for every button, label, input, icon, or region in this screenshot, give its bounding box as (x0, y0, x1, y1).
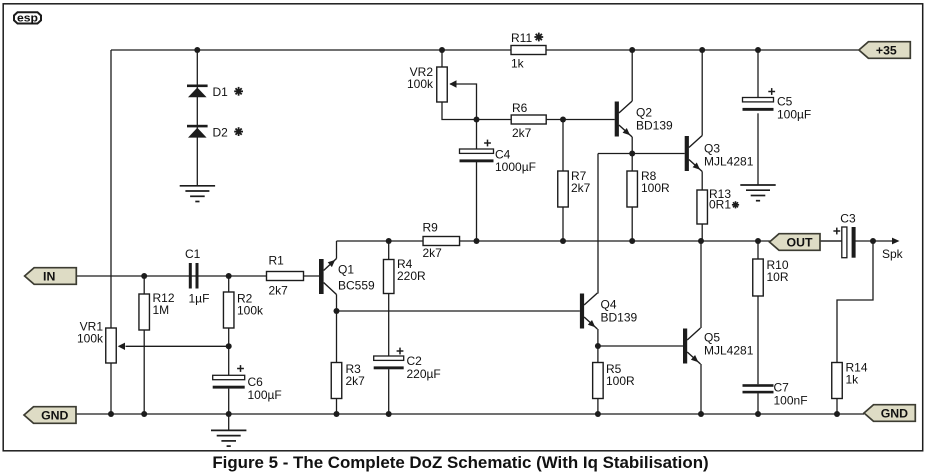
svg-text:Q4: Q4 (601, 298, 617, 312)
svg-text:C5: C5 (777, 95, 793, 109)
wire Q2 collector riser (631, 50, 633, 101)
wire Q1 collector riser (336, 295, 338, 312)
tag +35 (859, 42, 910, 59)
wire VR2 top lead (441, 50, 443, 67)
resistor R1 (267, 254, 304, 298)
wire +35 top rail left of R11 (111, 49, 511, 51)
ground under D1 D2 (180, 186, 215, 202)
wire Q2 emitter riser (631, 137, 633, 154)
wire VR2 wiper to node (450, 84, 477, 120)
wire Q3 emitter to R13 (701, 172, 703, 191)
svg-text:2k7: 2k7 (512, 126, 532, 140)
svg-text:Q5: Q5 (704, 331, 720, 345)
svg-text:100R: 100R (606, 374, 635, 388)
svg-text:C2: C2 (407, 354, 423, 368)
wire R14 bottom lead (836, 399, 838, 415)
wire C6 bottom lead (228, 389, 230, 414)
resistor R4 (383, 257, 426, 294)
svg-text:2k7: 2k7 (346, 374, 366, 388)
svg-text:R1: R1 (269, 254, 285, 268)
resistor R10 (753, 258, 789, 296)
ground under C5 (740, 185, 775, 201)
transistor Q2 (615, 101, 673, 137)
wire R8 branch (631, 154, 633, 242)
resistor R7 (558, 169, 591, 207)
wire R4 C2 branch upper (388, 241, 390, 356)
svg-text:D1: D1 (213, 85, 229, 99)
svg-text:10R: 10R (767, 270, 789, 284)
wire C7 bottom lead (757, 393, 759, 414)
svg-text:100µF: 100µF (248, 388, 282, 402)
wire C6 ground stub (228, 414, 230, 430)
asterisk for R11 (534, 33, 543, 42)
wire OUT tag to C3 (820, 240, 842, 242)
svg-text:C1: C1 (185, 247, 201, 261)
svg-text:R11: R11 (511, 31, 532, 45)
wire left bias rail lower (110, 363, 112, 414)
diode D2 (187, 125, 228, 140)
wire ground rail (76, 413, 864, 415)
svg-text:100k: 100k (237, 304, 264, 318)
capacitor C7 (743, 381, 808, 408)
svg-text:Q2: Q2 (636, 106, 652, 120)
svg-text:OUT: OUT (787, 235, 813, 249)
svg-text:2k7: 2k7 (423, 246, 443, 260)
wire R12 branch (143, 276, 145, 414)
wire Q4 collector riser (597, 154, 599, 294)
wire VR1 wiper line (126, 345, 229, 347)
svg-text:IN: IN (43, 269, 55, 283)
wire node to R6 (477, 119, 512, 121)
capacitor C5 (743, 88, 812, 121)
wire R6 to Q2 base (546, 119, 615, 121)
asterisk for R13 (732, 201, 739, 208)
tag GND left (24, 407, 76, 424)
svg-text:2k7: 2k7 (269, 284, 289, 298)
svg-text:Q1: Q1 (338, 263, 354, 277)
resistor R11 (511, 31, 546, 71)
svg-text:220µF: 220µF (407, 367, 441, 381)
resistor R13 (697, 187, 731, 224)
wire C5 bottom lead (757, 113, 759, 185)
resistor R2 (223, 292, 264, 329)
ESP logo (14, 12, 41, 24)
transistor Q1 (319, 259, 375, 295)
svg-text:Figure 5 - The Complete DoZ Sc: Figure 5 - The Complete DoZ Schematic (W… (212, 453, 708, 472)
asterisk for D2 (234, 127, 243, 136)
transistor Q4 (580, 293, 638, 329)
svg-text:1k: 1k (511, 57, 525, 71)
svg-text:R6: R6 (512, 101, 528, 115)
resistor R6 (511, 101, 546, 140)
svg-text:+35: +35 (876, 43, 897, 57)
transistor Q3 (685, 136, 754, 172)
svg-text:C7: C7 (774, 381, 790, 395)
wire C3 to speaker node (856, 240, 874, 242)
svg-text:C6: C6 (248, 375, 264, 389)
svg-text:D2: D2 (213, 125, 229, 139)
potentiometer VR1 (77, 320, 125, 364)
resistor R3 (331, 362, 365, 399)
wire left bias rail upper (110, 50, 112, 328)
wire R7 branch (562, 120, 564, 242)
potentiometer VR2 (407, 65, 457, 102)
svg-text:100µF: 100µF (777, 108, 811, 122)
svg-text:esp: esp (17, 12, 38, 24)
wire Q1 emitter riser (336, 241, 338, 259)
ground under C6 (211, 430, 246, 446)
wire R3 branch (336, 311, 338, 414)
capacitor C2 (374, 348, 441, 381)
svg-text:BD139: BD139 (636, 119, 673, 133)
figure caption (212, 453, 708, 472)
wire Q1 collector to Q4 base (337, 310, 580, 312)
svg-text:C3: C3 (840, 212, 856, 226)
tag GND right (864, 405, 915, 422)
svg-text:1µF: 1µF (189, 292, 210, 306)
capacitor C4 (460, 140, 536, 174)
diode D1 (187, 85, 228, 100)
svg-text:MJL4281: MJL4281 (704, 344, 754, 358)
wire R13 bottom lead (701, 224, 703, 241)
wire C5 top lead (757, 50, 759, 98)
svg-text:100k: 100k (77, 332, 104, 346)
svg-text:0R1: 0R1 (709, 198, 731, 212)
wire C2 bottom lead (388, 369, 390, 414)
resistor R12 (139, 291, 175, 330)
wire +35 top rail right of R11 (546, 49, 859, 51)
tag IN (25, 268, 77, 285)
wire Q3 collector riser (701, 50, 703, 136)
svg-text:Q3: Q3 (704, 142, 720, 156)
wire Q5 emitter riser (700, 364, 702, 414)
asterisk for D1 (234, 87, 243, 96)
wire C4 top lead (476, 120, 478, 150)
capacitor C3 (833, 212, 856, 258)
svg-text:GND: GND (41, 408, 68, 422)
svg-text:1000µF: 1000µF (495, 160, 536, 174)
svg-text:BD139: BD139 (601, 311, 638, 325)
wire Q5 collector riser (700, 241, 702, 328)
svg-text:220R: 220R (397, 269, 426, 283)
resistor R9 (423, 221, 460, 261)
svg-text:100R: 100R (641, 181, 670, 195)
svg-text:Spk: Spk (882, 247, 904, 261)
svg-text:1k: 1k (846, 373, 860, 387)
transistor Q5 (683, 328, 754, 364)
wire R2 C6 branch upper (228, 276, 230, 375)
svg-text:100nF: 100nF (774, 394, 808, 408)
capacitor C6 (213, 365, 282, 402)
resistor R5 (593, 362, 635, 399)
wire R14 loop from output (837, 241, 873, 363)
resistor R8 (627, 169, 670, 207)
speaker arrow Spk (873, 238, 904, 261)
svg-text:100k: 100k (407, 77, 434, 91)
svg-text:BC559: BC559 (338, 279, 375, 293)
wire Q4 emitter riser (597, 329, 599, 346)
svg-text:R9: R9 (423, 221, 439, 235)
resistor R14 (832, 361, 868, 399)
svg-text:1M: 1M (153, 303, 170, 317)
wire R10 C7 branch upper (757, 241, 759, 384)
wire output rail (337, 240, 842, 242)
tag OUT (770, 234, 821, 251)
wire D1 D2 branch (196, 50, 198, 186)
svg-text:2k7: 2k7 (571, 181, 591, 195)
svg-text:MJL4281: MJL4281 (704, 155, 754, 169)
wire input line (76, 275, 319, 277)
wire Q2 emitter node to Q3 base (598, 153, 685, 155)
svg-text:GND: GND (881, 406, 908, 420)
wire VR2 bottom lead to node (442, 102, 477, 120)
wire Q4 emitter node to Q5 base (598, 345, 683, 347)
wire C4 bottom lead (476, 162, 478, 241)
wire R5 branch (597, 346, 599, 414)
capacitor C1 (185, 247, 209, 306)
